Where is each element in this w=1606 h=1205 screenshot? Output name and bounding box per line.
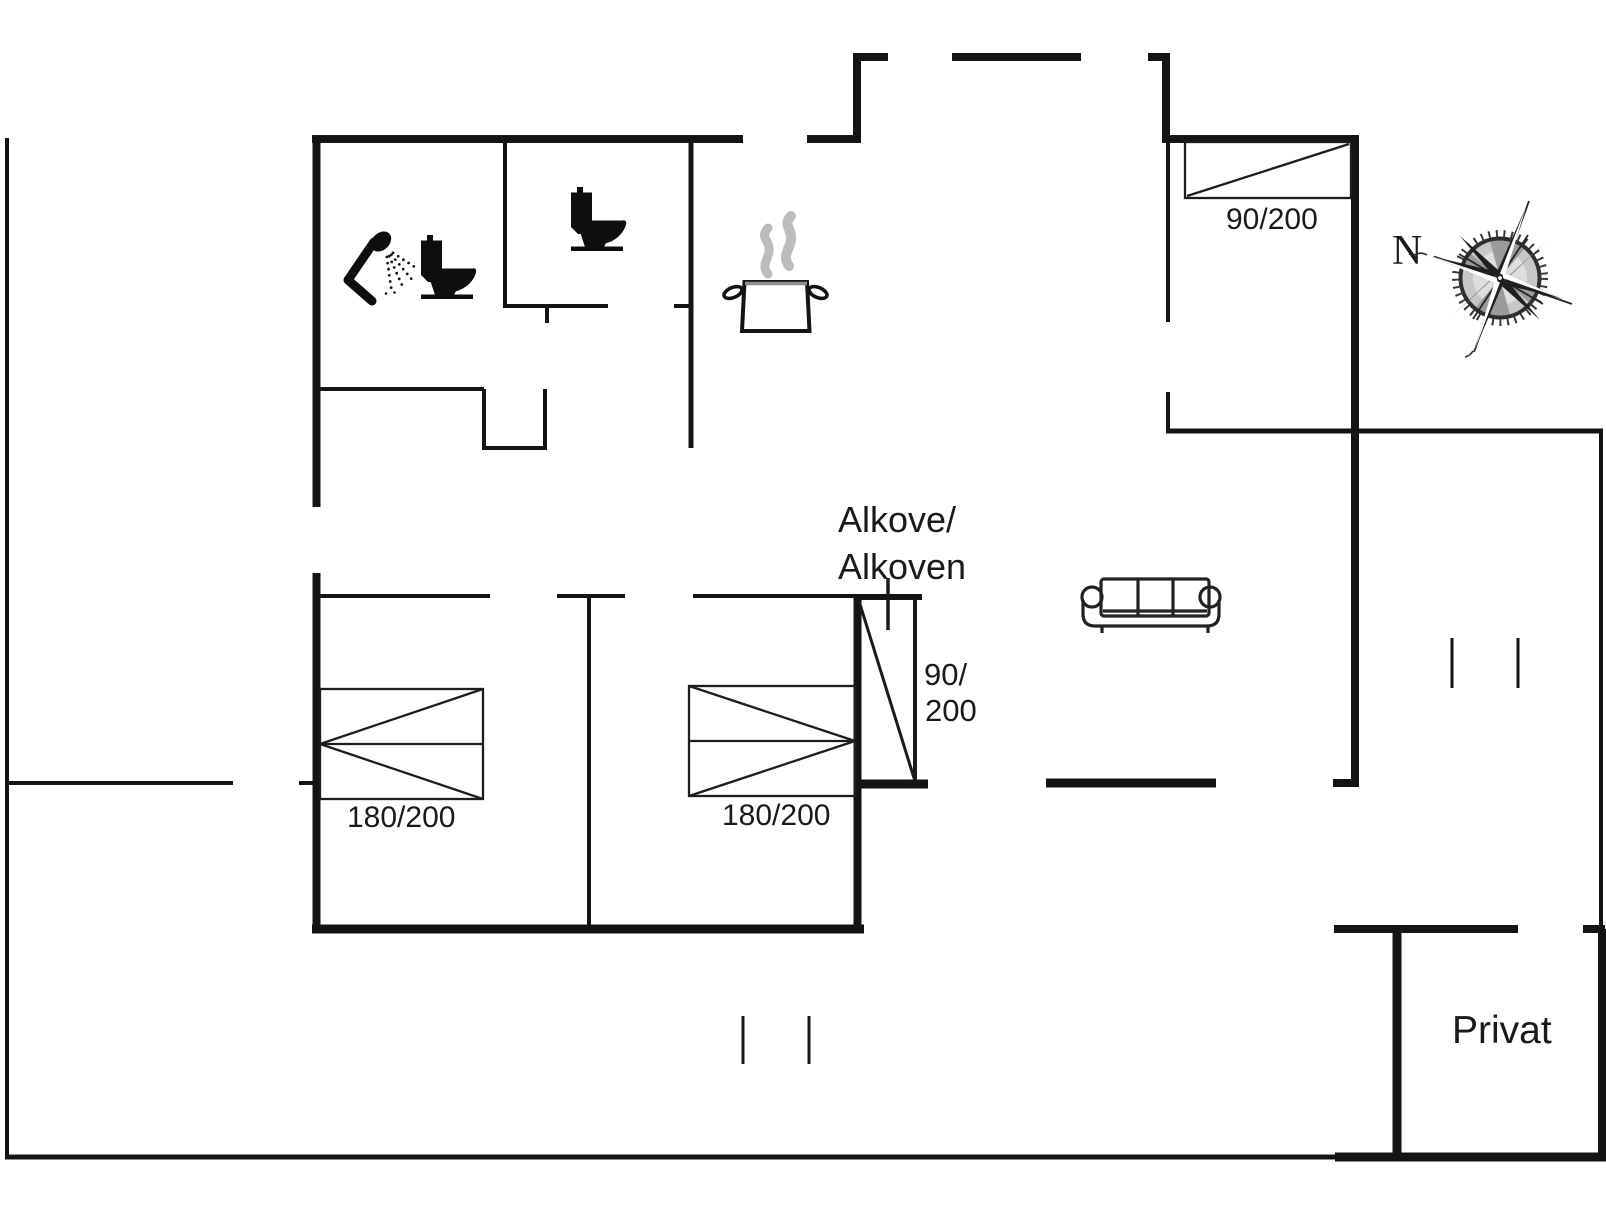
toilet WC1 <box>421 235 476 299</box>
shower head icon <box>348 227 415 301</box>
wire alkove bottom wall <box>857 780 928 789</box>
alkove bed right edge <box>913 599 917 781</box>
alkove bed diagonal <box>859 601 914 778</box>
wire bottom wall left thin portion <box>5 1155 1335 1160</box>
wire top right stub <box>1148 53 1170 61</box>
wire privat room top stub <box>1583 925 1605 933</box>
wire niche right wall <box>543 389 547 448</box>
wire hall top wall <box>316 387 484 391</box>
wire bedrooms top wall segment 1 <box>318 594 490 598</box>
wire left exterior wall <box>5 138 9 1159</box>
wire guest room left wall upper <box>1166 143 1170 322</box>
alkove label leader line <box>886 578 890 630</box>
cooking pot with steam <box>722 216 828 331</box>
wire wall between bedrooms <box>587 598 591 925</box>
wire top right horizontal wall <box>1162 135 1358 143</box>
wire entry step horizontal wall <box>807 135 861 143</box>
wire terrace divider line <box>7 781 233 785</box>
wire alkove top wall <box>855 594 922 600</box>
wire top middle wall <box>952 53 1081 61</box>
window tick right 1 <box>1451 638 1454 688</box>
wire entry step top stub <box>853 53 888 61</box>
svg-text:Alkove/: Alkove/ <box>838 499 956 540</box>
svg-text:180/200: 180/200 <box>722 799 830 832</box>
wire kitchen wall <box>689 143 694 448</box>
wire wc room bottom wall <box>503 304 608 308</box>
wire right wall lower thick <box>1598 929 1606 1157</box>
svg-text:90/200: 90/200 <box>1226 203 1318 236</box>
wire bottom wall right thick portion <box>1335 1153 1606 1162</box>
wire bedroom block bottom wall <box>312 925 864 934</box>
wire right terrace wall thin <box>1599 429 1603 929</box>
svg-text:N: N <box>1392 228 1422 274</box>
wire bathroom left wall <box>313 135 321 507</box>
bed 180/200 left <box>320 689 483 799</box>
wire kitchen wall tick <box>674 304 691 308</box>
window tick right 2 <box>1517 638 1520 688</box>
wire bedrooms top wall segment 3 <box>693 594 857 598</box>
wire privat room left wall <box>1393 925 1402 1157</box>
window tick bottom 2 <box>808 1016 811 1064</box>
wire bedroom block left wall <box>313 573 321 933</box>
svg-text:200: 200 <box>925 693 977 728</box>
wire bedrooms top wall segment 2 <box>557 594 625 598</box>
bed 180/200 right <box>689 686 855 796</box>
wire shower room right wall <box>503 139 507 306</box>
wire living room bottom wall <box>1046 779 1216 788</box>
window tick bottom 1 <box>742 1016 745 1064</box>
svg-text:Privat: Privat <box>1452 1009 1552 1052</box>
svg-text:Alkoven: Alkoven <box>838 546 966 587</box>
wire terrace divider stub <box>299 781 313 785</box>
compass rose <box>1409 201 1572 357</box>
wire guest room left wall lower <box>1166 392 1170 429</box>
wire right exterior wall foot <box>1333 779 1358 787</box>
svg-text:180/200: 180/200 <box>347 801 455 834</box>
wire guest room bottom wall <box>1166 429 1603 434</box>
wire niche left wall <box>482 389 486 448</box>
wire entry step vertical wall <box>853 53 861 143</box>
svg-text:90/: 90/ <box>924 657 967 692</box>
wire privat room top wall <box>1334 925 1518 933</box>
sofa <box>1082 579 1220 633</box>
toilet WC2 <box>571 187 626 251</box>
wire top right corner vertical <box>1162 53 1170 143</box>
wire wc door jamb stub <box>545 306 549 323</box>
wire right bedroom right wall <box>854 597 862 933</box>
bed 90/200 top right <box>1185 142 1351 198</box>
wire right exterior wall upper <box>1351 135 1359 787</box>
wire bathroom top wall <box>312 135 743 143</box>
wire niche bottom wall <box>482 446 547 450</box>
